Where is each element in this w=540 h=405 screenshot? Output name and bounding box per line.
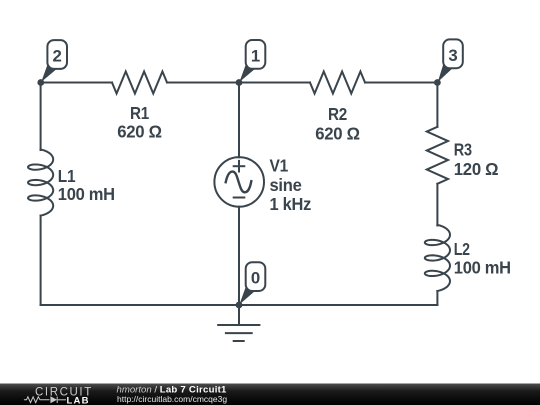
voltage source V1 circle xyxy=(214,157,264,207)
node 0 tag xyxy=(239,262,265,304)
resistor R1 xyxy=(112,72,167,94)
node junction dot node 0 xyxy=(236,302,243,309)
svg-text:R2: R2 xyxy=(328,104,347,124)
svg-text:100 mH: 100 mH xyxy=(58,184,115,204)
wire top horizontal R2 to node3 xyxy=(365,82,437,84)
wire left vertical upper (node2 to L1) xyxy=(40,83,42,151)
svg-text:2: 2 xyxy=(53,47,62,66)
svg-text:L1: L1 xyxy=(58,166,76,186)
wire top horizontal R1 to R2 through node1 xyxy=(167,82,310,84)
logo resistor zigzag xyxy=(24,397,66,403)
svg-text:3: 3 xyxy=(448,46,457,65)
wire bottom horizontal xyxy=(41,304,438,306)
logo diode triangle xyxy=(50,396,57,403)
svg-text:1 kHz: 1 kHz xyxy=(270,194,312,214)
wire right vertical upper (node3 to R3) xyxy=(436,83,438,127)
svg-text:620 Ω: 620 Ω xyxy=(117,122,162,142)
wire right vertical lower (L2 to bottom) xyxy=(436,291,438,305)
node junction dot node 3 xyxy=(434,79,441,86)
V1 plus sign xyxy=(238,161,240,172)
node 1 tag xyxy=(239,40,265,82)
svg-text:620 Ω: 620 Ω xyxy=(315,123,360,143)
svg-text:sine: sine xyxy=(270,175,303,195)
node 3 tag xyxy=(438,39,463,82)
V1 sine wave xyxy=(226,172,252,193)
ground symbol xyxy=(238,305,240,325)
wire left vertical lower (L1 to bottom) xyxy=(40,216,42,305)
svg-text:http://circuitlab.com/cmcqe3g: http://circuitlab.com/cmcqe3g xyxy=(117,394,227,404)
wire middle vertical lower (V1 to node0) xyxy=(238,207,240,305)
inductor L1 coil xyxy=(28,150,53,216)
V1 minus sign xyxy=(234,197,245,199)
node junction dot node 2 xyxy=(37,79,44,86)
svg-text:R1: R1 xyxy=(130,103,149,123)
svg-text:L2: L2 xyxy=(454,239,470,259)
svg-text:LAB: LAB xyxy=(67,395,90,405)
wire top horizontal node2 to R1 xyxy=(41,82,112,84)
svg-text:R3: R3 xyxy=(454,139,472,159)
svg-text:120 Ω: 120 Ω xyxy=(454,159,499,179)
svg-text:1: 1 xyxy=(251,46,260,65)
svg-text:0: 0 xyxy=(251,269,260,288)
svg-text:100 mH: 100 mH xyxy=(454,258,511,278)
resistor R3 xyxy=(427,127,448,184)
inductor L2 coil xyxy=(425,225,450,291)
svg-text:V1: V1 xyxy=(270,156,289,176)
node junction dot node 1 xyxy=(236,79,243,86)
wire middle vertical upper (node1 to V1) xyxy=(238,83,240,158)
wire right vertical middle (R3 to L2) xyxy=(436,184,438,226)
node 2 tag xyxy=(41,40,67,82)
resistor R2 xyxy=(310,72,365,94)
